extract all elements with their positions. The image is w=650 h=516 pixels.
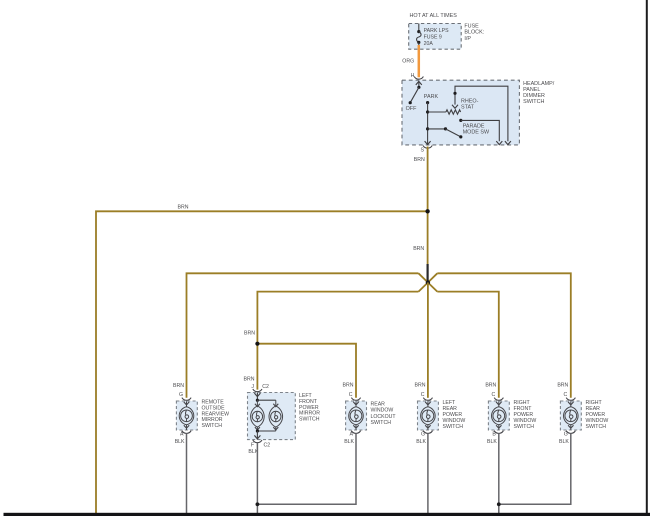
splice segment (427, 264, 429, 281)
switch S1: remote outside rearview mirror (173, 383, 197, 445)
svg-text:SWITCH: SWITCH (371, 420, 392, 426)
svg-text:SWITCH: SWITCH (586, 424, 607, 430)
svg-text:C: C (492, 392, 496, 398)
svg-text:SWITCH: SWITCH (443, 424, 464, 430)
svg-text:BRN: BRN (415, 382, 426, 388)
frame bottom bar (4, 513, 650, 516)
label FUSE BLOCK: I/P (464, 23, 484, 42)
wire BRN to right front window switch (437, 292, 499, 398)
wire BRN to right rear window switch (437, 273, 571, 398)
wire BRN to remote mirror switch (187, 273, 419, 398)
svg-text:SWITCH: SWITCH (299, 417, 320, 423)
svg-text:MODE SW: MODE SW (463, 130, 490, 136)
node PARK contact (426, 101, 429, 104)
svg-text:F: F (251, 442, 254, 448)
svg-text:C: C (564, 392, 568, 398)
wire park feed internal (425, 103, 431, 145)
label right rear power window switch (586, 400, 609, 430)
node S2/S3 ground junction (256, 502, 260, 506)
switch S6: right rear power window (557, 382, 581, 445)
label HEADLAMP/PANEL DIMMER SWITCH (523, 81, 555, 105)
node splice junction (425, 209, 429, 213)
switch S4: left rear power window (415, 382, 439, 445)
label right front power window switch (514, 400, 537, 430)
svg-text:BRN: BRN (173, 383, 184, 389)
svg-text:BRN: BRN (414, 157, 425, 163)
node mirror/lockout branch (255, 342, 259, 346)
svg-text:C2: C2 (262, 384, 269, 390)
svg-text:BRN: BRN (557, 382, 568, 388)
wire BRN to left rear window switch (427, 283, 429, 398)
wire BLK S5 ground (498, 433, 500, 514)
svg-text:WINDOW: WINDOW (371, 408, 394, 414)
fuse PARK LPS FUSE 9 20A (417, 24, 450, 48)
node S5/S6 ground junction (497, 502, 501, 506)
svg-text:BRN: BRN (343, 382, 354, 388)
wire BLK S3 to junction (257, 433, 356, 504)
wire BLK S6 to junction (499, 433, 571, 504)
svg-text:BLK: BLK (344, 439, 354, 445)
pin H connector (411, 73, 424, 79)
switch S2: left front power mirror (244, 377, 296, 456)
svg-text:PARADE: PARADE (463, 124, 485, 130)
svg-text:ORG: ORG (402, 58, 414, 64)
rheostat (426, 98, 479, 114)
label remote outside rearview mirror switch (202, 400, 230, 430)
switch S3: rear window lockout (343, 382, 367, 445)
parade mode switch (426, 119, 502, 145)
svg-text:C: C (349, 392, 353, 398)
wire BRN to left front mirror switch (257, 292, 418, 390)
headlamp switch arm H to OFF/PARK (406, 81, 439, 112)
label left rear power window switch (443, 400, 466, 430)
svg-text:FUSE 9: FUSE 9 (424, 35, 442, 41)
svg-text:BRN: BRN (413, 246, 424, 252)
svg-text:S: S (421, 148, 425, 154)
svg-text:HOT AT ALL TIMES: HOT AT ALL TIMES (410, 13, 458, 19)
svg-text:SWITCH: SWITCH (523, 99, 544, 105)
wire BRN left branch (96, 211, 428, 514)
wire BRN to rear window lockout switch (257, 344, 356, 398)
svg-text:BLK: BLK (416, 439, 426, 445)
wire ORG fuse to pin H (418, 45, 421, 77)
svg-text:SWITCH: SWITCH (202, 423, 223, 429)
wire BRN from S down (427, 147, 429, 212)
svg-text:C2: C2 (264, 442, 271, 448)
svg-text:BRN: BRN (244, 377, 255, 383)
svg-text:C: C (421, 392, 425, 398)
svg-text:BLK: BLK (487, 439, 497, 445)
pin S connector (421, 146, 433, 154)
frame right border (646, 0, 648, 516)
wire BLK S4 ground (427, 433, 429, 514)
svg-text:STAT: STAT (461, 105, 475, 111)
svg-text:I/P: I/P (464, 36, 471, 42)
svg-text:20A: 20A (424, 41, 434, 47)
svg-text:G: G (179, 392, 183, 398)
wire BLK S2 ground (256, 443, 258, 514)
svg-text:BLK: BLK (559, 439, 569, 445)
svg-text:BRN: BRN (244, 330, 255, 336)
svg-text:OFF: OFF (406, 106, 417, 112)
svg-text:FUSE: FUSE (464, 23, 479, 29)
rheostat wiper loop (452, 86, 511, 144)
svg-text:PARK: PARK (424, 94, 439, 100)
svg-text:REAR: REAR (371, 402, 386, 408)
svg-text:BRN: BRN (485, 382, 496, 388)
svg-text:BLK: BLK (175, 439, 185, 445)
switch S5: right front power window (485, 382, 509, 445)
junction fan node (419, 273, 438, 291)
svg-text:BLOCK:: BLOCK: (464, 30, 484, 36)
svg-text:SWITCH: SWITCH (514, 424, 535, 430)
svg-text:BRN: BRN (178, 205, 189, 211)
svg-text:LOCKOUT: LOCKOUT (371, 414, 397, 420)
svg-text:RHEO-: RHEO- (461, 98, 479, 104)
wire BLK S1 ground (186, 433, 188, 514)
label rear window lockout switch (371, 402, 397, 427)
svg-text:PARK LPS: PARK LPS (424, 28, 450, 34)
headlamp/panel dimmer switch box (402, 80, 519, 145)
fuse block I/P box (409, 24, 462, 50)
wire BRN main down (427, 211, 429, 264)
svg-text:H: H (411, 73, 415, 79)
label left front power mirror switch (299, 393, 320, 423)
